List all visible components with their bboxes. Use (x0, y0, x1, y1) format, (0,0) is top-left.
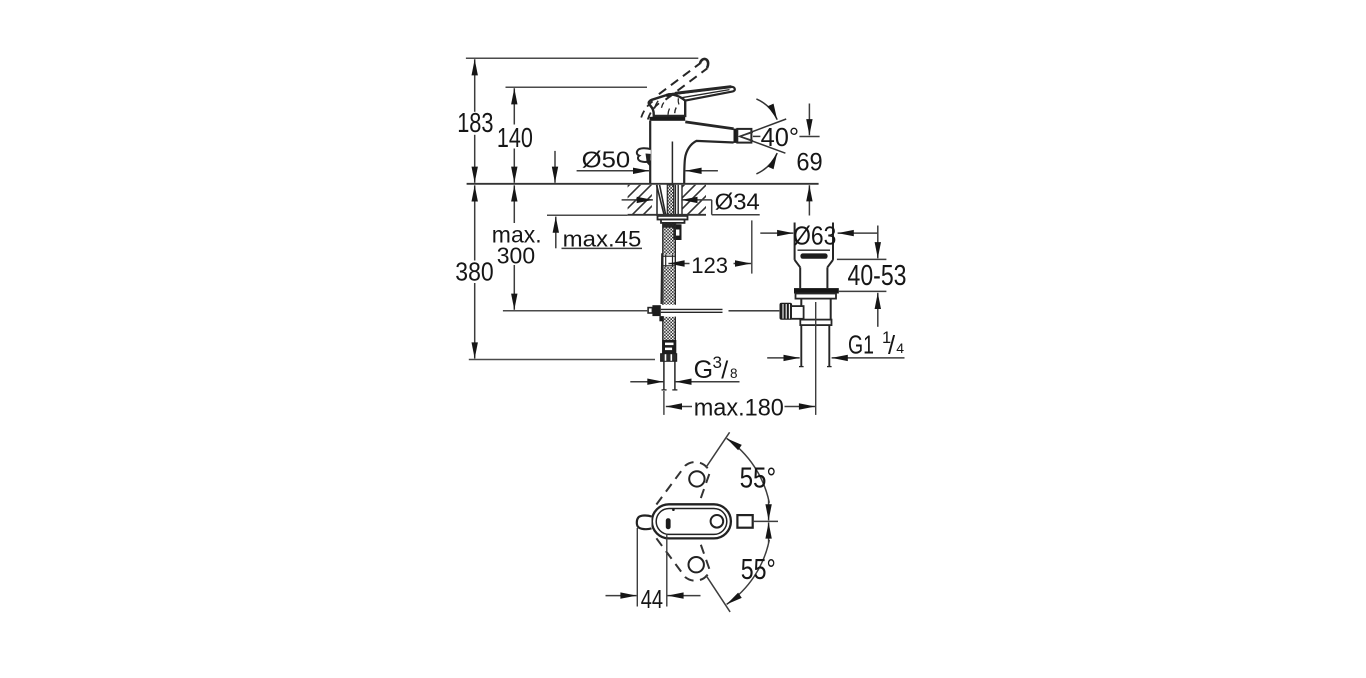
hose joint inner line left (665, 255, 667, 267)
dimension Ø63 right arrow (838, 232, 878, 234)
countertop hatching left block (628, 185, 652, 215)
connection tube right (674, 361, 676, 389)
shank right tube line 2 (677, 185, 679, 216)
dimension Ø50 right arrow (685, 170, 718, 172)
svg-text:55°: 55° (741, 554, 776, 586)
shank pop-up rod diagonal 2 (660, 185, 666, 215)
dimension Ø63 left arrow (760, 232, 793, 234)
raised lever tip (700, 59, 708, 68)
pop-up rod vertical (660, 253, 663, 304)
raised lever pivot dashed arc inner (648, 102, 660, 119)
dimension 380 vertical line lower segment with down arrow (474, 283, 476, 359)
countertop hatching right block (682, 185, 706, 215)
svg-text:69: 69 (796, 149, 822, 177)
dimension 183 vertical line upper segment with up arrow (474, 59, 476, 112)
svg-text:123: 123 (691, 253, 728, 278)
svg-text:Ø63: Ø63 (793, 222, 836, 250)
valve centerline extension (815, 302, 817, 415)
Ø34 underline (712, 214, 760, 216)
faucet spout underside and fillet (684, 141, 733, 184)
svg-text:G1: G1 (848, 331, 874, 359)
dimension Ø34 right arrow leader (681, 199, 712, 201)
top view right tab (737, 515, 752, 528)
valve bottom band (800, 320, 831, 326)
svg-text:/: / (888, 332, 896, 360)
raised lever dashed line upper (666, 68, 708, 99)
valve neck right (826, 267, 828, 288)
svg-text:8: 8 (730, 366, 738, 381)
spray angle open arrowhead (740, 132, 753, 141)
countertop deck line (467, 183, 819, 185)
svg-text:max.45: max.45 (563, 226, 642, 251)
svg-text:Ø34: Ø34 (715, 189, 760, 215)
mounting lug hole lower (689, 557, 704, 572)
hose outline lower left (662, 317, 664, 354)
dimension G3/8 right arrow (675, 381, 739, 383)
spray angle upper arc (756, 99, 777, 120)
svg-text:380: 380 (455, 257, 493, 287)
svg-text:4: 4 (896, 340, 904, 356)
pop-up rod tee nub (659, 316, 663, 321)
rod clamp notch (675, 230, 680, 236)
dimension 183 vertical line lower segment with down arrow at deck (474, 135, 476, 183)
valve knob ridge 3 (788, 304, 790, 319)
lever top thick edge (676, 87, 731, 94)
valve taper right (827, 260, 833, 267)
spray angle lower arc (756, 153, 777, 174)
side tab dark wedge (646, 154, 651, 167)
55 degree lower ray (706, 575, 730, 612)
55 degree upper ray (706, 432, 730, 467)
valve body left (800, 299, 802, 320)
tailpiece end tick right (827, 366, 832, 368)
side tab (637, 148, 651, 162)
mounting flange (658, 216, 688, 220)
dimension 40-53 lower up arrow (877, 293, 879, 327)
svg-text:183: 183 (457, 107, 493, 138)
handle body sketch stroke 1 (662, 103, 664, 108)
dimension max.180 left arrow (666, 406, 692, 408)
handle body sketch stroke 3 (677, 98, 680, 104)
lever handle (668, 87, 735, 101)
183 top reference line (466, 57, 698, 59)
handle crest dark patch (666, 93, 673, 98)
top view left tab (637, 515, 652, 529)
pop-up rod tee (652, 305, 660, 316)
hose braid segment 2 (664, 267, 675, 305)
pop-up rod end cap (648, 308, 652, 313)
hose end fitting slot 2 (665, 348, 672, 351)
valve body right (830, 299, 832, 320)
top view lever slot (666, 518, 671, 529)
44 left extension line (636, 528, 638, 607)
spray angle leader to label (753, 135, 761, 137)
dimension max.300 vertical line upper segment with up arrow at deck (513, 185, 515, 223)
380 bottom reference line (469, 359, 655, 361)
svg-text:40°: 40° (761, 122, 800, 152)
dimension G1 1/4 left arrow (767, 357, 800, 359)
hose outline upper left (662, 222, 664, 304)
dimension max.300 vertical line lower segment with down arrow (513, 265, 515, 310)
tailpiece end tick left (799, 366, 804, 368)
hose end dark fitting (662, 340, 676, 354)
faucet body fill (650, 121, 733, 184)
valve cap thin line (798, 249, 831, 251)
svg-text:55°: 55° (740, 462, 777, 494)
dimension 123 right arrow (734, 263, 752, 265)
spout height 69 reference tick (799, 136, 819, 138)
dimension 123 left arrow (668, 263, 689, 265)
hose outline lower right (674, 317, 676, 354)
faucet body left edge (649, 121, 651, 184)
valve flange (796, 294, 837, 299)
dimension 69 lower up arrow (808, 185, 810, 215)
handle body (649, 94, 685, 116)
mounting lug dashed outline lower (656, 538, 710, 580)
spray angle upper fan line (740, 119, 787, 136)
mounting lug dashed outline upper (656, 462, 710, 504)
max.45 down arrow above deck (554, 151, 556, 183)
aerator tip (737, 129, 751, 143)
hose joint tick 2 (663, 265, 676, 267)
handle body sketch stroke 4 (655, 101, 659, 108)
svg-text:300: 300 (497, 243, 535, 269)
dimension 123 right extension line (751, 220, 753, 273)
tube end tick right (672, 389, 677, 391)
valve knob ridge 1 (782, 304, 784, 319)
svg-text:40-53: 40-53 (848, 260, 907, 292)
hose braid segment 3 (664, 317, 675, 340)
svg-text:44: 44 (641, 584, 663, 614)
svg-text:max.180: max.180 (694, 395, 784, 422)
valve cap dark band (800, 253, 827, 258)
connection tube left (663, 361, 665, 389)
dimension Ø50 left arrow with underline (577, 170, 650, 172)
horizontal rod lower line (661, 311, 723, 313)
hose braid segment 1 (664, 222, 675, 254)
mounting lug hole upper (689, 471, 704, 486)
dimension 380 vertical line upper segment with up arrow at deck (474, 185, 476, 260)
shank pop-up rod diagonal 1 (657, 185, 664, 215)
Ø34 leader vertical jog (711, 200, 713, 215)
dimension 44 left arrow (606, 595, 637, 597)
55 degree upper arc (727, 438, 770, 502)
hose end nut flat 1 (665, 354, 667, 361)
max.45 up arrow below deck (555, 217, 557, 249)
44 right extension line (666, 534, 668, 607)
cartridge collar ring (650, 117, 686, 121)
lever crease line (681, 90, 730, 98)
shank braid band (667, 185, 673, 215)
top view horizontal centerline (753, 520, 778, 522)
deck bottom edge line (628, 214, 706, 216)
top view spout hole (711, 515, 724, 528)
waste valve top right edge (832, 223, 834, 260)
55 degree lower arc (727, 540, 770, 604)
deck hole right edge (681, 185, 683, 215)
svg-text:G: G (694, 356, 713, 384)
dimension 40-53 upper down arrow (877, 226, 879, 259)
hose end nut (661, 354, 677, 362)
rod clamp block (673, 224, 681, 240)
valve tailpiece left (800, 325, 802, 366)
40-53 upper reference tick (837, 258, 887, 260)
deck bottom reference line for max.45 (547, 214, 628, 216)
55 degree lower vertical arrow (768, 522, 770, 542)
tube end tick left (662, 389, 667, 391)
hose joint inner line right (672, 255, 674, 267)
dimension 140 vertical line upper segment with up arrow (513, 88, 515, 124)
horizontal rod upper line (661, 308, 723, 310)
valve neck left (799, 267, 801, 288)
handle body sketch stroke 5 (668, 109, 670, 115)
valve knob ridge 2 (785, 304, 787, 319)
40-53 lower reference tick (839, 290, 887, 292)
mounting nut (661, 220, 685, 223)
valve seal dark band (794, 288, 839, 293)
140 reference line (506, 86, 648, 88)
top view small dot (672, 508, 675, 511)
max.300 bottom reference line (503, 310, 648, 312)
max.180 left extension line (663, 391, 665, 415)
hose outline upper right (674, 222, 676, 304)
raised lever dashed line lower (659, 63, 700, 94)
valve taper left (795, 260, 801, 267)
raised lever pivot dashed arc outer (641, 99, 656, 117)
dimension 44 right arrow (667, 595, 700, 597)
svg-text:140: 140 (497, 122, 533, 153)
top view inner capsule (656, 509, 727, 535)
shank right tube line 1 (674, 185, 676, 216)
spray angle lower fan line (740, 136, 786, 153)
max.45 underline (562, 247, 643, 249)
aerator dark band (734, 129, 738, 143)
valve rod connector (791, 306, 804, 319)
hose joint tick (663, 255, 676, 257)
faucet spout arm top edge (685, 122, 733, 129)
faucet body inner line (671, 142, 673, 184)
dimension G3/8 left arrow (630, 381, 663, 383)
top view body capsule (652, 504, 731, 538)
handle body sketch stroke 2 (675, 108, 677, 114)
dimension G1 1/4 right arrow (832, 357, 905, 359)
svg-text:/: / (721, 357, 728, 385)
svg-text:Ø50: Ø50 (582, 147, 631, 173)
hose collar below nut (662, 223, 676, 228)
dimension 69 upper down arrow (808, 104, 810, 136)
dimension max.180 right arrow (785, 406, 816, 408)
horizontal rod right segment (729, 310, 780, 312)
hose end fitting slot 1 (665, 343, 674, 346)
dimension Ø34 left arrow (622, 199, 653, 201)
valve tailpiece right (828, 325, 830, 366)
55 degree upper vertical arrow (768, 500, 770, 520)
shank left line (656, 185, 658, 216)
valve knob (780, 303, 793, 320)
dimension 140 vertical line lower segment with down arrow at deck (513, 149, 515, 183)
waste valve top left edge (794, 223, 796, 260)
hose end nut flat 2 (670, 354, 672, 361)
